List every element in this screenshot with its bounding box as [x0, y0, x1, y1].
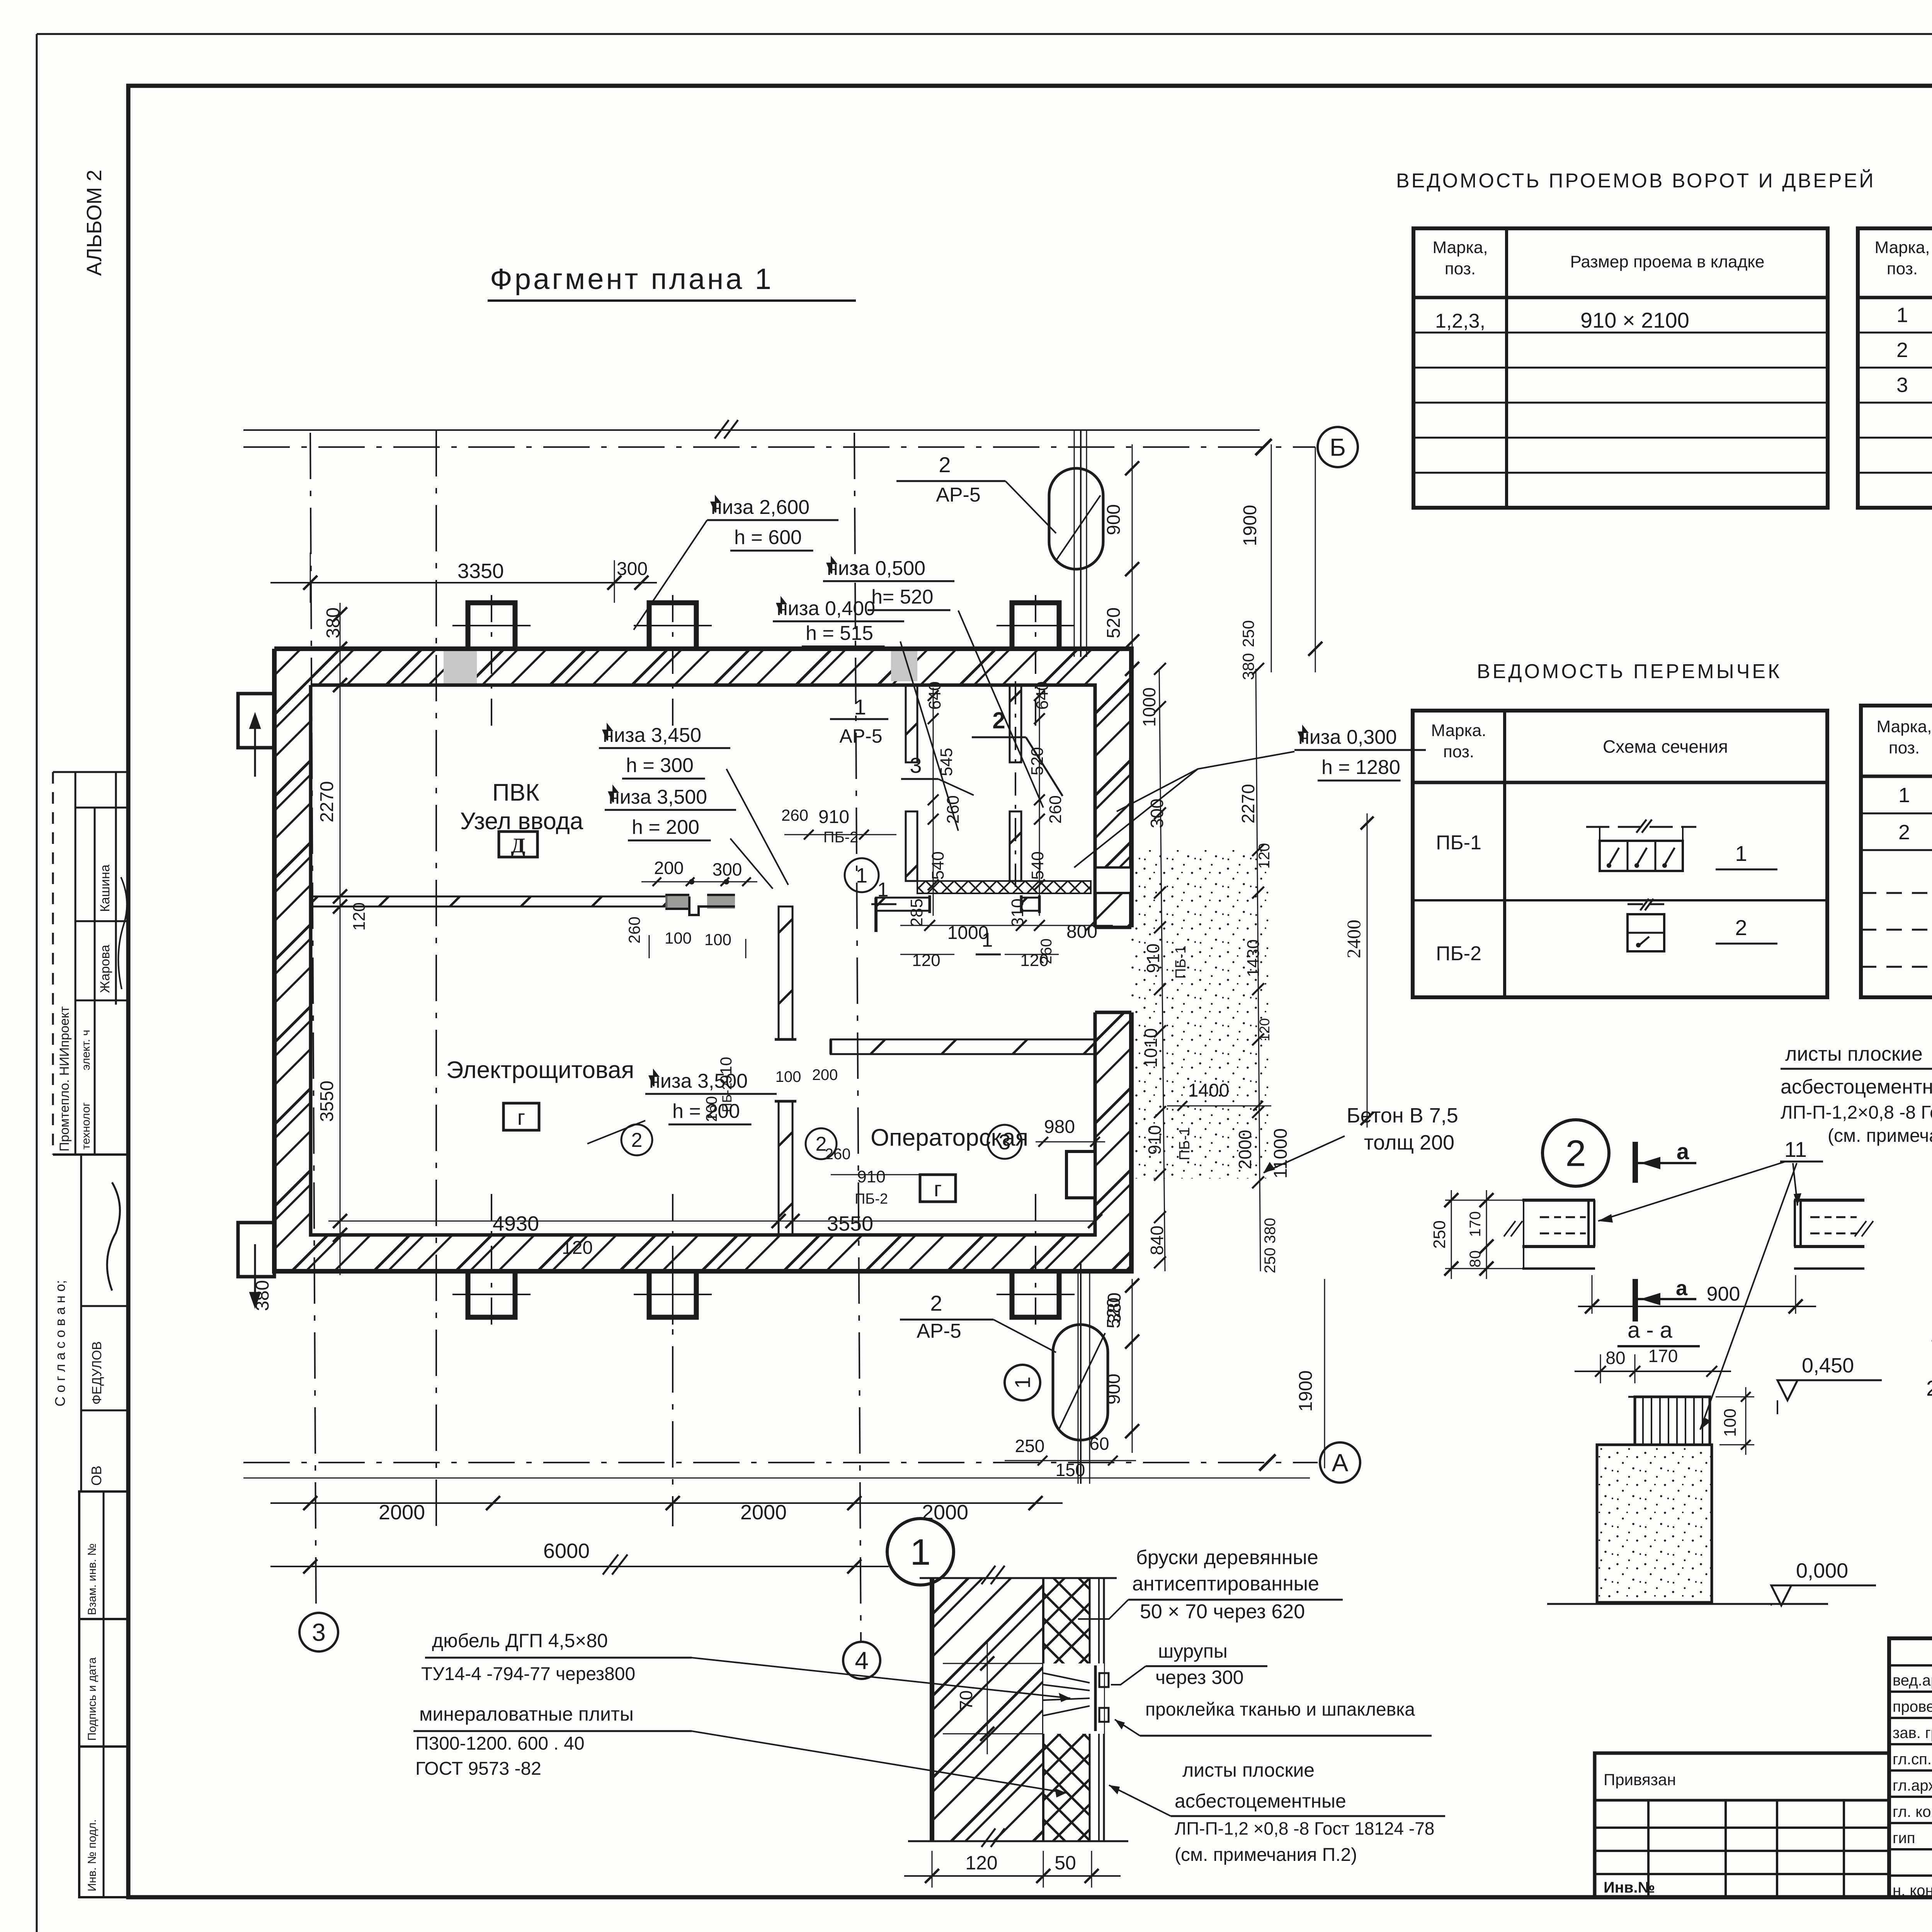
svg-text:1: 1 [910, 1532, 930, 1573]
svg-text:50: 50 [1054, 1852, 1076, 1874]
section mark a (top) [1633, 1142, 1638, 1183]
svg-text:1: 1 [1898, 784, 1910, 807]
svg-text:Марка,: Марка, [1877, 717, 1932, 736]
svg-text:ФЕДУЛОВ: ФЕДУЛОВ [90, 1341, 104, 1405]
svg-text:260: 260 [825, 1146, 851, 1163]
svg-text:н. контроль: н. контроль [1893, 1882, 1932, 1899]
svg-text:0,000: 0,000 [1796, 1559, 1848, 1582]
svg-text:листы плоские: листы плоские [1785, 1043, 1923, 1065]
svg-text:300: 300 [617, 559, 648, 579]
svg-text:640: 640 [925, 681, 944, 709]
svg-text:120: 120 [350, 902, 369, 930]
svg-text:250: 250 [1430, 1220, 1449, 1248]
svg-text:1: 1 [856, 864, 867, 887]
svg-text:1.: 1. [1930, 1322, 1932, 1346]
columns on exterior walls [468, 603, 515, 649]
svg-text:1: 1 [982, 929, 993, 951]
svg-text:асбестоцементные: асбестоцементные [1175, 1790, 1346, 1812]
svg-text:Марка,: Марка, [1875, 238, 1930, 257]
grid line A (horizontal axis) [243, 1462, 1318, 1463]
svg-text:120: 120 [562, 1238, 593, 1258]
detail2 left dims 250/170/80 [1451, 1190, 1452, 1279]
svg-text:Марка,: Марка, [1433, 238, 1488, 257]
svg-text:Схема сечения: Схема сечения [1603, 736, 1728, 757]
svg-text:840: 840 [1147, 1226, 1167, 1255]
svg-text:гл.арх.отд: гл.арх.отд [1893, 1777, 1932, 1794]
svg-text:проклейка тканью и шпаклевка: проклейка тканью и шпаклевка [1145, 1699, 1415, 1720]
grid line 4 (vertical axis) [854, 433, 861, 1642]
svg-text:60: 60 [1089, 1434, 1109, 1454]
svg-text:бруски деревянные: бруски деревянные [1136, 1546, 1318, 1569]
detail1 mineral wool [1043, 1578, 1090, 1841]
interior bottom dim chain [328, 1221, 1095, 1222]
svg-text:АР-5: АР-5 [917, 1320, 961, 1342]
svg-text:250: 250 [1239, 620, 1257, 647]
svg-text:низа 3,500: низа 3,500 [649, 1070, 748, 1092]
svg-text:2400: 2400 [1343, 920, 1364, 958]
svg-text:170: 170 [1648, 1346, 1678, 1366]
svg-text:1: 1 [878, 879, 889, 901]
detail1 wall hatch [932, 1578, 1043, 1841]
exterior walls with hatch [274, 649, 1131, 685]
svg-text:2: 2 [1896, 338, 1908, 362]
thin line below plan [243, 1478, 1310, 1479]
svg-text:ПБ-2: ПБ-2 [855, 1191, 888, 1207]
svg-text:С о г л а с о в а н о;: С о г л а с о в а н о; [52, 1280, 68, 1406]
svg-text:Взам. инв. №: Взам. инв. № [86, 1543, 99, 1615]
svg-text:h = 1280: h = 1280 [1321, 756, 1400, 779]
svg-text:1900: 1900 [1240, 505, 1260, 546]
svg-text:260: 260 [781, 806, 808, 824]
svg-text:минераловатные плиты: минераловатные плиты [419, 1703, 634, 1725]
svg-text:низа 2,600: низа 2,600 [711, 496, 810, 519]
niche in right wall [1066, 1151, 1095, 1198]
svg-text:300: 300 [713, 859, 742, 879]
svg-text:толщ 200: толщ 200 [1364, 1131, 1454, 1154]
interior wall A (PVK / Electroschitovaya) [311, 896, 667, 906]
svg-text:АР-5: АР-5 [936, 484, 981, 506]
svg-text:Электрощитовая: Электрощитовая [446, 1057, 634, 1083]
svg-text:380: 380 [252, 1280, 273, 1311]
channel section right [1794, 1199, 1864, 1202]
svg-text:250: 250 [1262, 1248, 1279, 1274]
svg-text:ЛП-П-1,2×0,8 -8 Гост 18124 -7: ЛП-П-1,2×0,8 -8 Гост 18124 -78 [1781, 1102, 1932, 1123]
grid bubble A [1320, 1442, 1360, 1483]
svg-text:шурупы: шурупы [1158, 1640, 1228, 1662]
svg-text:150: 150 [1056, 1460, 1085, 1480]
svg-text:П300-1200. 600 . 40: П300-1200. 600 . 40 [415, 1733, 585, 1754]
svg-text:г: г [517, 1105, 525, 1129]
svg-text:100: 100 [1721, 1408, 1740, 1437]
grid bubble 3 [299, 1613, 338, 1651]
column centerlines [491, 595, 492, 726]
detail2 lower column section [1575, 1371, 1731, 1372]
door gap jambs wall B [775, 1038, 796, 1041]
grid bubble 4 [843, 1642, 880, 1679]
svg-text:поз.: поз. [1887, 259, 1918, 278]
svg-text:г: г [934, 1177, 942, 1201]
svg-text:2: 2 [939, 452, 951, 477]
svg-text:Бетон В 7,5: Бетон В 7,5 [1347, 1104, 1458, 1127]
svg-text:1000: 1000 [1139, 687, 1159, 727]
detail1 fastener window [1043, 1663, 1104, 1734]
svg-text:200: 200 [654, 858, 684, 878]
svg-text:1900: 1900 [1296, 1371, 1316, 1412]
svg-text:520: 520 [1104, 1298, 1124, 1328]
svg-text:260: 260 [625, 917, 643, 944]
svg-text:зав. груп.: зав. груп. [1893, 1725, 1932, 1742]
tambour partition C [906, 685, 917, 762]
svg-text:(см. примечание П.2): (см. примечание П.2) [1828, 1126, 1932, 1146]
svg-text:900: 900 [1104, 504, 1124, 535]
svg-text:285: 285 [907, 898, 926, 927]
svg-text:Д: Д [511, 834, 525, 857]
svg-text:640: 640 [1033, 681, 1052, 709]
detail1 dim 70 [987, 1642, 988, 1754]
circled door marks [845, 858, 879, 892]
concrete apron right of door [1130, 850, 1269, 1179]
svg-text:3: 3 [910, 753, 922, 777]
svg-text:260: 260 [1046, 795, 1065, 823]
svg-text:2000: 2000 [740, 1501, 787, 1524]
tambour lower wall segments [876, 898, 930, 911]
PB-2 section schema [1628, 914, 1664, 951]
dim 100 [1745, 1387, 1747, 1455]
svg-text:980: 980 [1044, 1117, 1075, 1137]
svg-text:1: 1 [1010, 1376, 1035, 1388]
svg-text:380: 380 [1262, 1218, 1279, 1244]
wood block with vertical hatch [1635, 1397, 1710, 1445]
svg-text:2: 2 [631, 1129, 643, 1151]
svg-text:ПБ-2: ПБ-2 [823, 829, 859, 846]
svg-text:380: 380 [1239, 653, 1257, 680]
detail1 asbestos sheet [1092, 1578, 1104, 1841]
svg-text:910: 910 [857, 1167, 885, 1186]
svg-text:2.: 2. [1926, 1376, 1932, 1400]
svg-text:120: 120 [912, 951, 940, 970]
svg-text:520: 520 [1104, 607, 1124, 638]
svg-text:h= 520: h= 520 [871, 586, 934, 608]
svg-text:100: 100 [776, 1068, 801, 1085]
svg-text:технолог: технолог [80, 1102, 92, 1150]
svg-text:h = 300: h = 300 [626, 754, 694, 777]
channel section left [1522, 1199, 1595, 1202]
tambour threshold strip [917, 881, 1091, 893]
svg-text:11000: 11000 [1270, 1128, 1291, 1179]
chain 2270/120/1430/20 [1256, 669, 1260, 1271]
svg-text:Привязан: Привязан [1604, 1770, 1676, 1789]
svg-text:300: 300 [1147, 799, 1167, 828]
section mark a (bottom) + dim 900 [1633, 1279, 1638, 1321]
wall outlines [274, 649, 1131, 927]
svg-text:низа 3,450: низа 3,450 [603, 724, 701, 747]
svg-text:элект. ч: элект. ч [80, 1030, 92, 1070]
svg-text:910: 910 [818, 807, 849, 827]
svg-text:100: 100 [704, 930, 731, 949]
svg-text:проверила: проверила [1893, 1698, 1932, 1715]
svg-text:а - а: а - а [1628, 1318, 1673, 1343]
svg-text:80: 80 [1605, 1348, 1625, 1368]
svg-text:низа 0,500: низа 0,500 [827, 557, 925, 580]
svg-text:260: 260 [944, 795, 963, 823]
window opening in right wall [1097, 867, 1130, 893]
svg-text:антисептированные: антисептированные [1132, 1573, 1319, 1595]
svg-text:ПБ-2: ПБ-2 [1436, 942, 1481, 965]
svg-text:540: 540 [1028, 851, 1047, 879]
svg-text:1,2,3,: 1,2,3, [1435, 310, 1485, 332]
svg-text:50 × 70 через 620: 50 × 70 через 620 [1140, 1600, 1305, 1623]
big detail bubble 1 [887, 1519, 954, 1585]
svg-text:h = 515: h = 515 [806, 622, 873, 645]
svg-text:Жарова: Жарова [98, 945, 112, 993]
svg-text:3550: 3550 [317, 1081, 337, 1122]
right-bottom dim chain [1132, 1279, 1133, 1453]
svg-text:520: 520 [1028, 747, 1047, 775]
svg-text:АР-5: АР-5 [839, 725, 882, 747]
door 1 lintel jambs in wall A [665, 895, 689, 909]
svg-text:6000: 6000 [543, 1539, 590, 1563]
svg-text:2270: 2270 [317, 781, 337, 823]
svg-text:ГОСТ 9573 -82: ГОСТ 9573 -82 [415, 1759, 541, 1779]
svg-text:ТУ14-4 -794-77 через800: ТУ14-4 -794-77 через800 [421, 1664, 635, 1684]
window patches in top wall [444, 650, 477, 684]
svg-text:910 × 2100: 910 × 2100 [1580, 308, 1689, 332]
svg-text:Марка.: Марка. [1431, 721, 1486, 740]
operator room top wall [831, 1039, 1095, 1054]
svg-text:гл.сп.кон.: гл.сп.кон. [1893, 1751, 1932, 1768]
svg-text:гип: гип [1893, 1830, 1915, 1847]
svg-text:3: 3 [1896, 374, 1908, 397]
svg-text:540: 540 [929, 851, 947, 879]
svg-text:h = 200: h = 200 [672, 1100, 740, 1122]
svg-text:1: 1 [1896, 303, 1908, 327]
svg-text:Размер проема в кладке: Размер проема в кладке [1570, 252, 1764, 271]
svg-text:ВЕДОМОСТЬ ПРОЕМОВ ВОРОТ И: ВЕДОМОСТЬ ПРОЕМОВ ВОРОТ И ДВЕРЕЙ [1396, 169, 1876, 192]
svg-text:А: А [1332, 1449, 1349, 1476]
svg-text:3550: 3550 [827, 1212, 873, 1235]
svg-text:2: 2 [992, 707, 1005, 733]
axis through tambour door [1015, 681, 1016, 893]
svg-text:Подпись и дата: Подпись и дата [86, 1657, 99, 1741]
svg-text:100: 100 [665, 929, 692, 947]
svg-text:Инв. № подл.: Инв. № подл. [86, 1819, 99, 1891]
svg-text:дюбель ДГП 4,5×80: дюбель ДГП 4,5×80 [432, 1630, 608, 1651]
concrete column [1597, 1445, 1712, 1602]
svg-text:3: 3 [998, 1130, 1010, 1154]
svg-text:ОВ: ОВ [88, 1466, 104, 1486]
svg-text:4930: 4930 [493, 1212, 539, 1235]
tambour dim chain verticals [933, 688, 934, 916]
svg-text:Кашина: Кашина [98, 864, 112, 912]
interior wall B (vertical partition) [779, 906, 793, 1039]
svg-text:через 300: через 300 [1155, 1667, 1244, 1688]
svg-text:поз.: поз. [1443, 742, 1474, 761]
svg-text:1: 1 [854, 695, 866, 719]
axis x=1741 below building [672, 1271, 673, 1526]
svg-text:h = 600: h = 600 [734, 526, 802, 549]
svg-text:ЛП-П-1,2 ×0,8 -8 Гост 18124 -7: ЛП-П-1,2 ×0,8 -8 Гост 18124 -78 [1175, 1818, 1434, 1838]
detail1 top/bottom edges [920, 1577, 1117, 1579]
svg-text:а: а [1676, 1277, 1688, 1300]
svg-text:вед.арх.: вед.арх. [1893, 1672, 1932, 1689]
signature table [1889, 1638, 1932, 1897]
svg-text:2: 2 [930, 1291, 942, 1315]
tambour partition D [1010, 685, 1021, 762]
svg-text:ПВК: ПВК [492, 779, 539, 806]
top dimension chain 3350/300 [270, 582, 657, 583]
svg-text:низа 3,500: низа 3,500 [609, 786, 707, 808]
svg-text:3: 3 [312, 1618, 326, 1646]
svg-text:2: 2 [1898, 821, 1910, 844]
svg-text:ПБ-1: ПБ-1 [1436, 832, 1481, 854]
right dim 1900 top [1315, 447, 1316, 672]
chain 2400 / 11000 [1367, 813, 1368, 1128]
svg-text:120: 120 [965, 1852, 997, 1874]
svg-text:2270: 2270 [1238, 784, 1258, 823]
svg-text:3350: 3350 [457, 560, 504, 583]
left wall tabs [238, 694, 274, 748]
svg-text:2: 2 [1735, 915, 1747, 940]
grid bubble B [1318, 427, 1358, 467]
right-top dim chain (900/520) [1132, 444, 1133, 672]
left stamp upper block [53, 771, 128, 773]
grid line B (horizontal axis) [243, 446, 1315, 448]
svg-text:Промтепло. НИИпроект: Промтепло. НИИпроект [57, 1006, 72, 1151]
svg-text:ВЕДОМОСТЬ ПЕРЕМЫЧЕК: ВЕДОМОСТЬ ПЕРЕМЫЧЕК [1477, 660, 1782, 683]
svg-text:асбестоцементные: асбестоцементные [1781, 1076, 1932, 1098]
interior vertical dim chain [340, 603, 340, 1275]
svg-text:низа 0,300: низа 0,300 [1298, 726, 1397, 748]
detail1 bottom dims 120/50 [932, 1851, 933, 1888]
svg-text:Б: Б [1330, 433, 1346, 461]
svg-text:поз.: поз. [1445, 259, 1476, 278]
svg-text:низа 0,400: низа 0,400 [777, 597, 875, 620]
svg-text:200: 200 [812, 1066, 838, 1083]
svg-text:11: 11 [1784, 1137, 1807, 1162]
sheet outer margin lines [36, 34, 38, 1932]
svg-text:гл. кон.стд: гл. кон.стд [1893, 1803, 1932, 1820]
svg-text:Инв.№: Инв.№ [1604, 1879, 1655, 1896]
svg-text:4: 4 [855, 1646, 869, 1674]
svg-text:170: 170 [1467, 1211, 1484, 1237]
svg-text:80: 80 [1467, 1250, 1484, 1268]
svg-text:260: 260 [1038, 939, 1055, 964]
svg-text:Фрагмент плана 1: Фрагмент плана 1 [490, 263, 774, 296]
plan: top break line [243, 429, 1260, 431]
svg-text:(см. примечания П.2): (см. примечания П.2) [1175, 1845, 1357, 1865]
svg-text:2000: 2000 [379, 1501, 425, 1524]
svg-text:900: 900 [1707, 1283, 1740, 1305]
svg-text:АЛЬБОМ 2: АЛЬБОМ 2 [83, 170, 106, 276]
right side vertical dim chains [1159, 669, 1165, 1271]
svg-text:250: 250 [1015, 1436, 1045, 1456]
svg-text:900: 900 [1104, 1374, 1124, 1405]
grid line 3 (vertical axis) [310, 433, 316, 1613]
privyazan table [1595, 1753, 1889, 1897]
left stamp lower boxes [79, 1492, 128, 1619]
svg-text:h = 200: h = 200 [632, 816, 699, 838]
long auxiliary axis x=1129 [435, 430, 437, 1526]
svg-text:70: 70 [956, 1690, 976, 1710]
circled 1 near bottom oval [1005, 1365, 1040, 1400]
svg-text:листы плоские: листы плоские [1182, 1759, 1315, 1781]
svg-text:а: а [1677, 1139, 1689, 1164]
svg-text:0,450: 0,450 [1802, 1354, 1854, 1377]
svg-text:2: 2 [1565, 1133, 1586, 1174]
svg-text:поз.: поз. [1889, 738, 1920, 757]
PB-1 section schema [1600, 841, 1683, 871]
bottom dim chains 2000s and 6000 [270, 1502, 1063, 1504]
svg-text:1: 1 [1735, 841, 1747, 866]
